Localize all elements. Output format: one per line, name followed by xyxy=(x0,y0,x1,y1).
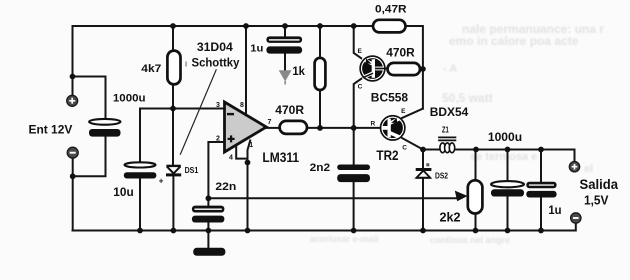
svg-text:0,47R: 0,47R xyxy=(375,4,407,16)
svg-text:3: 3 xyxy=(216,102,220,109)
svg-text:50,5 watt: 50,5 watt xyxy=(442,91,493,105)
svg-text:C: C xyxy=(402,144,407,151)
svg-text:Salida: Salida xyxy=(580,177,619,192)
svg-text:1u: 1u xyxy=(250,42,263,54)
svg-text:BDX54: BDX54 xyxy=(430,106,469,119)
svg-text:BC558: BC558 xyxy=(371,92,409,104)
svg-text:Schottky: Schottky xyxy=(192,55,240,69)
svg-text:2k2: 2k2 xyxy=(440,210,461,225)
svg-text:Z1: Z1 xyxy=(442,125,449,134)
svg-text:aceriusar e-mail: aceriusar e-mail xyxy=(310,234,379,244)
svg-text:2n2: 2n2 xyxy=(310,162,331,174)
svg-text:se termosa e: se termosa e xyxy=(470,151,537,163)
svg-text:E: E xyxy=(401,108,406,115)
svg-text:1: 1 xyxy=(249,142,253,149)
svg-text:8: 8 xyxy=(240,102,244,109)
svg-text:continua nel angre: continua nel angre xyxy=(430,235,510,245)
svg-text:31D04: 31D04 xyxy=(197,40,233,54)
svg-text:470R: 470R xyxy=(386,47,415,60)
svg-text:1000u: 1000u xyxy=(488,130,522,144)
svg-text:1u: 1u xyxy=(548,203,561,217)
svg-text:1k: 1k xyxy=(292,64,305,78)
svg-text:1,5V: 1,5V xyxy=(584,192,609,207)
svg-text:DS1: DS1 xyxy=(185,166,199,175)
svg-text:10u: 10u xyxy=(113,187,133,199)
svg-text:22n: 22n xyxy=(215,181,236,193)
svg-text:+: + xyxy=(159,177,164,186)
svg-text:el: el xyxy=(584,163,593,175)
svg-text:2: 2 xyxy=(216,136,220,143)
svg-text:C: C xyxy=(358,84,363,91)
svg-text:7: 7 xyxy=(268,119,272,126)
svg-text:emo in calore poa acte: emo in calore poa acte xyxy=(449,34,579,48)
svg-text:LM311: LM311 xyxy=(262,150,299,165)
svg-text:DS2: DS2 xyxy=(435,171,448,180)
svg-text:- A: - A xyxy=(443,63,457,75)
svg-text:4: 4 xyxy=(229,154,233,161)
svg-text:1000u: 1000u xyxy=(113,93,146,105)
svg-text:TR2: TR2 xyxy=(376,148,398,163)
svg-text:Ent 12V: Ent 12V xyxy=(29,122,74,136)
svg-text:E: E xyxy=(358,48,363,55)
svg-text:470R: 470R xyxy=(275,103,304,117)
svg-text:4k7: 4k7 xyxy=(141,63,161,75)
svg-text:R: R xyxy=(370,120,375,127)
